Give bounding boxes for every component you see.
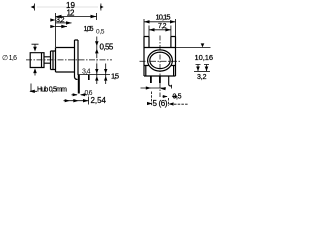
svg-text:7,2: 7,2 xyxy=(158,23,167,30)
pressed-state gray line xyxy=(96,59,98,75)
svg-text:1,5: 1,5 xyxy=(111,72,119,81)
dim 19 extension bars xyxy=(34,4,101,11)
top edge extension xyxy=(176,47,211,49)
dim 7,2 xyxy=(149,26,171,37)
svg-text:3,4: 3,4 xyxy=(82,68,91,75)
12 arrow left xyxy=(56,15,62,19)
dim 12 xyxy=(56,13,97,47)
ring inner xyxy=(150,52,170,68)
3,2 left outside arrow xyxy=(50,18,55,21)
19 arrow right xyxy=(100,5,103,8)
arrows left view xyxy=(29,5,107,102)
top edge xyxy=(144,47,176,49)
cap dia down arrow xyxy=(33,47,37,52)
dim 19 line (faint) xyxy=(37,6,98,8)
0,5 arrows xyxy=(163,95,168,98)
button cap xyxy=(30,53,44,68)
hub leader xyxy=(30,84,37,92)
dim 10,15 xyxy=(144,19,176,37)
svg-text:1,05: 1,05 xyxy=(84,26,94,33)
0,55 arrows xyxy=(95,41,99,46)
10,15 arrows xyxy=(144,20,150,23)
corner notch left xyxy=(144,66,149,77)
cap dia up arrow xyxy=(33,68,37,73)
svg-text:10,16: 10,16 xyxy=(195,53,214,62)
horizontal centerline right view xyxy=(140,60,182,62)
1,05 left outside arrow xyxy=(50,25,55,28)
svg-text:3,2: 3,2 xyxy=(56,17,65,24)
small dim down arrows xyxy=(196,67,200,72)
pin right with hook xyxy=(169,76,172,86)
pin 2 stub xyxy=(88,75,90,80)
10,16 down arrow onto line xyxy=(201,43,205,47)
cap chamfer line xyxy=(41,53,43,68)
svg-text:Hub 0,5mm: Hub 0,5mm xyxy=(37,87,67,94)
small dim arrow stems xyxy=(196,65,210,72)
svg-text:5 (6): 5 (6) xyxy=(153,99,168,108)
3,2 right arrow xyxy=(66,21,72,24)
2,54 arrows xyxy=(73,99,79,102)
7,2 arrows xyxy=(149,28,155,31)
dim 3,4 vertical xyxy=(96,64,98,85)
5(6) arrows xyxy=(147,102,152,105)
0,55 vertical xyxy=(96,37,98,59)
plate foot hook xyxy=(75,78,78,80)
cap dia arrow shafts + top bar xyxy=(32,44,39,75)
10,16 lower line xyxy=(194,71,210,73)
ring outer xyxy=(148,50,173,71)
dim y88 arrows xyxy=(146,86,151,89)
svg-text:0,55: 0,55 xyxy=(100,43,114,52)
1,5 arrows xyxy=(104,69,107,74)
svg-text:2,54: 2,54 xyxy=(91,96,107,105)
0,5 dim tails xyxy=(163,96,178,98)
hub arrow xyxy=(29,90,35,93)
dim 1,05 line xyxy=(56,26,68,28)
2,54 left end arrow xyxy=(65,99,70,102)
svg-text:∅ 1,6: ∅ 1,6 xyxy=(2,55,17,62)
body xyxy=(56,48,75,73)
pin 1 thick xyxy=(78,75,80,94)
vertical centerline right view xyxy=(159,36,161,98)
dim 3,2 line xyxy=(56,22,72,24)
dim 1,5 vertical xyxy=(105,64,107,85)
collar xyxy=(51,51,56,70)
shoulder line xyxy=(78,74,111,76)
body outline xyxy=(144,37,176,77)
12 arrow right xyxy=(91,15,97,19)
svg-text:0,5: 0,5 xyxy=(173,94,182,101)
neck xyxy=(44,57,51,63)
5(6) dim xyxy=(152,92,189,107)
19 arrow left xyxy=(31,5,35,8)
horizontal centerline left view xyxy=(26,59,112,61)
svg-text:12: 12 xyxy=(67,8,76,17)
mounting plate double line xyxy=(75,40,79,78)
svg-text:0,5: 0,5 xyxy=(96,29,105,36)
ear inner verticals xyxy=(149,37,171,48)
dim line y88 xyxy=(141,85,172,89)
3,4 arrows xyxy=(95,69,98,74)
dim 2,54 xyxy=(64,97,89,105)
pin width arrows xyxy=(73,93,78,96)
pin left xyxy=(150,76,152,83)
pin mid xyxy=(159,76,161,83)
svg-text:10,15: 10,15 xyxy=(156,12,171,21)
corner notch right xyxy=(171,66,176,77)
pin width dim tails xyxy=(72,94,88,96)
1,05 right arrow xyxy=(61,25,67,28)
svg-text:3,2: 3,2 xyxy=(197,74,207,81)
arrows right view xyxy=(144,20,208,106)
